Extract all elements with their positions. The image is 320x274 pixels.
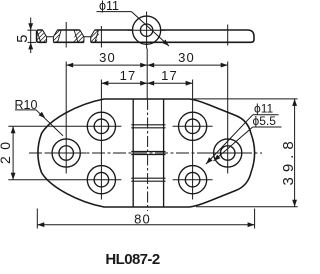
dim 80 (bottom) [37,209,254,229]
front view: hinge plate outline [38,99,255,207]
circle crosshair centerlines [128,12,166,49]
extension line col x=192.6 (right hole column) [192,80,194,200]
knuckle edges, front view [133,99,163,207]
countersunk hole cross-sections [37,30,99,42]
dim 5 (thickness) [28,18,37,54]
hole mid-left (phi11/phi5.5) [52,139,80,167]
dim row 30 / 30 [66,64,228,66]
center extension line [146,49,148,100]
svg-text:5: 5 [15,35,31,43]
extension line col x=101.4 (left hole column) [100,26,102,48]
hole top-left [87,112,115,140]
leaf bottom edge through circle [139,41,155,43]
profile outline [37,30,254,42]
dim row 17 / 17 [101,82,192,84]
knuckle joint lines [131,125,165,181]
hole bottom-left [87,166,115,194]
knuckle barrel circle, top view [133,16,161,44]
svg-text:HL087-2: HL087-2 [105,251,159,268]
svg-text:17: 17 [161,68,178,83]
svg-text:30: 30 [99,50,116,65]
main horizontal centerline (dash-dot) [29,152,262,154]
extension line col x=66 (to mid-left hole) [65,22,67,48]
svg-text:80: 80 [134,211,151,226]
extension line col x=227.7 (to mid-right hole) [227,25,229,46]
svg-text:17: 17 [120,68,137,83]
svg-text:30: 30 [178,50,195,65]
hole crosshair centerlines [46,126,248,179]
knuckle vertical centerline (dash-dot) [147,99,149,211]
hole top-right [179,112,207,140]
svg-text:20: 20 [0,135,13,164]
svg-text:39.8: 39.8 [280,136,297,185]
svg-text:ϕ5.5: ϕ5.5 [253,114,277,128]
hole bottom-right [179,166,207,194]
dim 20 (left) [8,126,121,179]
hole mid-right (phi11/phi5.5) [214,139,242,167]
dim 39.8 (right) [194,99,298,207]
